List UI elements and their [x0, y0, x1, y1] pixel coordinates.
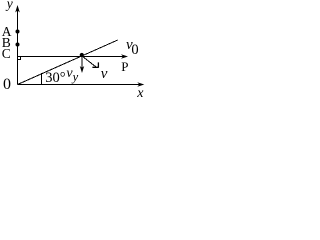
label v_y : v part [66, 67, 72, 81]
label C [2, 47, 11, 61]
label v_y : y subscript [73, 71, 79, 84]
v0 arrowhead [121, 54, 128, 59]
junction dot [80, 53, 84, 57]
x-axis arrowhead [137, 82, 144, 87]
label A [2, 25, 12, 39]
x-axis [18, 84, 143, 86]
horizontal line C to P with v0 arrow [18, 56, 126, 58]
label 30deg [45, 71, 65, 86]
label O [3, 77, 11, 93]
label x [137, 87, 143, 101]
point A dot [16, 30, 20, 34]
y-axis arrowhead [15, 5, 20, 13]
angle tick [41, 73, 43, 85]
label B [2, 36, 11, 50]
v arrow [82, 56, 96, 67]
inclined line O to upper right [18, 40, 118, 84]
vy arrow [81, 56, 83, 70]
right-angle mark at C [18, 57, 21, 60]
point B dot [16, 43, 20, 47]
label P [121, 60, 128, 73]
label v0 : v part [126, 38, 133, 53]
label v0 : 0 subscript [131, 43, 138, 58]
y-axis [17, 7, 19, 85]
label y [7, 0, 13, 11]
label v [101, 67, 108, 82]
